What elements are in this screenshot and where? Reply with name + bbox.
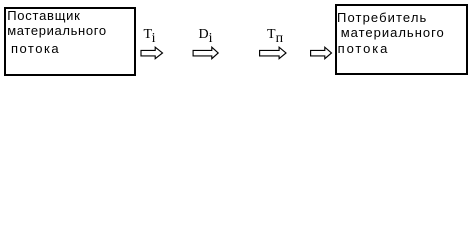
arrow 4 (to consumer) — [311, 47, 332, 59]
label Ti — [144, 28, 156, 42]
arrow 1 (Ti) — [141, 47, 163, 59]
consumer box text line 3 — [338, 41, 390, 57]
arrow 2 (Di) — [193, 47, 218, 59]
consumer box text line 2 — [341, 25, 445, 41]
supplier box — [4, 7, 136, 76]
supplier box text line 2 — [7, 23, 107, 39]
supplier box text line 1 — [7, 8, 80, 24]
consumer box text line 1 — [337, 10, 427, 26]
arrow 3 (Tp) — [260, 47, 286, 59]
label Di — [199, 28, 213, 42]
supplier box text line 3 — [11, 41, 60, 57]
label Tp — [267, 28, 283, 42]
consumer box — [335, 4, 468, 75]
